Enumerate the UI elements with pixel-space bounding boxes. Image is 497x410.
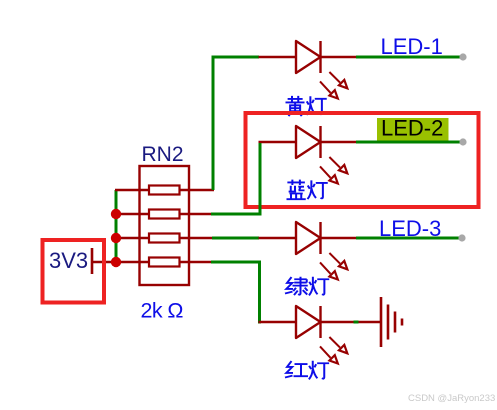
highlight box around LED-2 row [246, 113, 479, 207]
ground bar 3 [394, 312, 397, 333]
LED D1 yellow [259, 41, 357, 99]
wire: small green joint before ground [354, 321, 359, 324]
junction dot row4 [111, 257, 121, 267]
wire: row1 right stub out of RN2 [180, 189, 215, 191]
junction dot row3 [111, 233, 121, 243]
LED D2 blue [259, 126, 357, 184]
wire: row2 left stub into RN2 [115, 213, 149, 215]
wire: row3 right stub out of RN2 [180, 237, 214, 239]
wire: row3 left stub into RN2 [115, 237, 149, 239]
resistor R3 body [149, 234, 180, 243]
wire: row1 left stub into RN2 [115, 189, 149, 191]
svg-text:LED-2: LED-2 [381, 116, 443, 141]
pin endpoint dot LED-2 [459, 138, 466, 145]
wire: green vertical from row1 up to LED-1 level [213, 57, 259, 190]
ground bar 4 [401, 319, 404, 326]
svg-text:LED-3: LED-3 [379, 216, 441, 241]
label green lamp (lv deng) [285, 277, 329, 296]
wire: green from LED-1 to pin end [356, 56, 463, 59]
wire: row2 right stub out of RN2 [180, 213, 213, 215]
pin endpoint dot LED-3 [458, 234, 465, 241]
resistor network RN2 box [140, 166, 190, 285]
junction dot row2 [111, 209, 121, 219]
wire: row4 left stub into RN2 [92, 261, 149, 263]
highlight box around 3V3 power port [43, 240, 105, 303]
wire: green vertical bus on left of RN2 [115, 190, 118, 262]
svg-text:CSDN @JaRyon233: CSDN @JaRyon233 [408, 393, 495, 404]
label yellow lamp (huang deng) [286, 96, 327, 116]
wire: red from LED-4 to ground [356, 321, 380, 323]
svg-text:3V3: 3V3 [49, 248, 88, 273]
wire: green segment row3 [212, 237, 259, 240]
svg-text:LED-1: LED-1 [381, 34, 443, 59]
selection highlight for net label LED-2 [377, 118, 449, 144]
svg-text:RN2: RN2 [142, 143, 184, 166]
LED D4 red [259, 306, 357, 364]
power port 3V3 bar [91, 248, 94, 274]
LED D3 green [259, 222, 357, 280]
ground bar 1 [380, 297, 383, 347]
pin endpoint dot LED-1 [459, 53, 466, 60]
wire: green net row4 down to LED-4 level [211, 262, 261, 322]
ground bar 2 [387, 305, 390, 340]
resistor R1 body [149, 186, 180, 195]
label red lamp (hong deng) [285, 361, 329, 380]
resistor R4 body [149, 258, 180, 267]
label blue lamp (lan deng) [287, 180, 328, 200]
wire: row4 right stub out of RN2 [180, 261, 213, 263]
wire: green from LED-3 to pin end [356, 237, 462, 240]
wire: green from LED-2 to pin end [356, 141, 463, 144]
resistor R2 body [149, 210, 180, 219]
wire: green net row2 to LED-2 vertical riser [211, 143, 260, 214]
svg-text:2k Ω: 2k Ω [141, 299, 184, 323]
